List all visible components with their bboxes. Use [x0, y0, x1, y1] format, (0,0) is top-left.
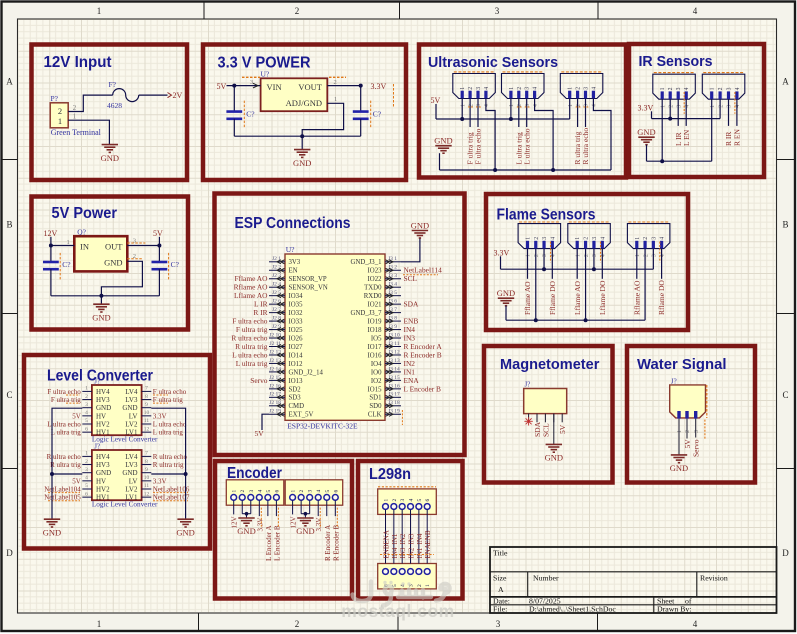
svg-text:4: 4 [693, 619, 698, 629]
svg-text:J2 12: J2 12 [269, 349, 281, 355]
svg-text:3: 3 [476, 87, 482, 90]
svg-text:1: 1 [334, 96, 337, 103]
svg-text:A: A [498, 585, 504, 594]
svg-text:ESP Connections: ESP Connections [235, 215, 351, 232]
svg-text:1: 1 [635, 237, 641, 240]
svg-text:J2 19: J2 19 [269, 409, 281, 415]
svg-text:4: 4 [601, 254, 607, 257]
svg-text:J2 17: J2 17 [269, 392, 281, 398]
svg-text:5: 5 [417, 499, 423, 502]
svg-text:IN4: IN4 [416, 533, 424, 544]
svg-text:2: 2 [584, 254, 590, 257]
svg-text:IO15: IO15 [368, 386, 383, 393]
svg-text:4: 4 [257, 490, 263, 493]
svg-text:4: 4 [85, 475, 88, 481]
svg-text:D:\ahmed\..\Sheet1.SchDoc: D:\ahmed\..\Sheet1.SchDoc [529, 605, 616, 614]
svg-text:10: 10 [144, 410, 150, 416]
svg-text:4: 4 [600, 237, 606, 240]
svg-text:F ultra echo: F ultra echo [474, 128, 483, 164]
svg-text:IN3: IN3 [408, 533, 416, 544]
svg-text:5V: 5V [217, 82, 227, 91]
svg-text:GND: GND [96, 469, 111, 477]
svg-text:2: 2 [534, 254, 540, 257]
svg-text:SD1: SD1 [369, 395, 381, 402]
svg-text:2: 2 [240, 490, 246, 493]
svg-text:Fflame AO: Fflame AO [523, 281, 532, 315]
svg-text:VOUT: VOUT [298, 82, 322, 92]
svg-text:1: 1 [85, 386, 88, 392]
svg-text:11: 11 [144, 483, 150, 489]
svg-text:IO0: IO0 [371, 369, 382, 376]
svg-text:ENA: ENA [383, 530, 391, 544]
svg-text:5: 5 [325, 490, 331, 493]
svg-text:12V: 12V [44, 229, 58, 238]
svg-text:6: 6 [274, 490, 280, 493]
svg-text:HV3: HV3 [96, 461, 110, 469]
svg-text:3.3V: 3.3V [153, 477, 167, 485]
svg-text:LV2: LV2 [125, 485, 138, 493]
svg-text:1: 1 [97, 619, 102, 629]
svg-text:GND: GND [293, 158, 311, 168]
svg-text:Size: Size [493, 574, 507, 583]
svg-text:4: 4 [592, 104, 598, 107]
svg-text:J3 12: J3 12 [388, 349, 400, 355]
svg-text:6: 6 [85, 426, 88, 432]
svg-text:VIN: VIN [267, 82, 282, 92]
svg-text:GND: GND [122, 404, 137, 412]
svg-text:LV: LV [129, 477, 138, 485]
svg-text:L ultra echo: L ultra echo [153, 420, 187, 428]
svg-text:5V: 5V [558, 424, 567, 434]
svg-text:SCL: SCL [404, 274, 418, 283]
svg-text:CLK: CLK [368, 412, 382, 419]
svg-text:GND: GND [237, 526, 255, 536]
svg-text:R ultra trig: R ultra trig [153, 461, 184, 469]
svg-text:IN2: IN2 [408, 547, 416, 558]
svg-text:LV2: LV2 [125, 420, 138, 428]
svg-text:Magnetometer: Magnetometer [500, 356, 600, 373]
svg-text:IN1: IN1 [391, 533, 399, 544]
svg-text:SD3: SD3 [289, 395, 302, 402]
svg-text:5V: 5V [255, 429, 265, 438]
svg-text:Ultrasonic Sensors: Ultrasonic Sensors [428, 54, 558, 71]
svg-text:L EN: L EN [682, 129, 691, 146]
svg-text:2: 2 [295, 6, 300, 16]
svg-text:8: 8 [145, 459, 148, 465]
svg-text:Rflame DO: Rflame DO [657, 280, 666, 315]
svg-text:GND: GND [545, 453, 563, 463]
svg-text:1: 1 [232, 490, 238, 493]
svg-text:Green Terminal: Green Terminal [51, 128, 102, 137]
svg-text:R Encoder B: R Encoder B [332, 525, 340, 561]
svg-text:IO4: IO4 [371, 361, 382, 368]
svg-text:IN1: IN1 [416, 547, 424, 558]
svg-text:P?: P? [51, 94, 59, 103]
svg-text:mostaql.com: mostaql.com [341, 601, 454, 621]
svg-text:L ultra trig: L ultra trig [236, 359, 268, 368]
svg-text:L ultra echo: L ultra echo [522, 128, 531, 164]
svg-text:L Encoder B: L Encoder B [404, 384, 442, 393]
svg-text:IO5: IO5 [371, 335, 382, 342]
svg-text:L Encoder B: L Encoder B [273, 525, 281, 561]
svg-text:3V3: 3V3 [289, 259, 301, 266]
svg-text:J2 11: J2 11 [269, 341, 281, 347]
svg-text:Title: Title [493, 549, 508, 558]
svg-text:File:: File: [493, 605, 507, 614]
svg-text:R Encoder A: R Encoder A [324, 525, 332, 561]
svg-text:Logic Level Converter: Logic Level Converter [92, 501, 158, 509]
svg-text:ENB: ENB [383, 544, 391, 558]
svg-text:J2 3: J2 3 [272, 273, 281, 279]
svg-text:Drawn By:: Drawn By: [657, 605, 691, 614]
svg-text:4: 4 [484, 104, 490, 107]
svg-text:HV2: HV2 [96, 420, 110, 428]
svg-text:F?: F? [109, 80, 117, 89]
svg-text:HV2: HV2 [96, 485, 110, 493]
svg-text:ESP32-DEVKITC-32E: ESP32-DEVKITC-32E [287, 422, 358, 431]
svg-text:3: 3 [496, 619, 501, 629]
svg-text:U?: U? [286, 245, 295, 254]
svg-text:J2 1: J2 1 [272, 256, 281, 262]
svg-text:1: 1 [710, 87, 716, 90]
svg-text:3: 3 [308, 490, 314, 493]
svg-text:5: 5 [85, 418, 88, 424]
svg-text:2: 2 [417, 584, 423, 587]
svg-text:2: 2 [668, 105, 674, 108]
svg-text:IO14: IO14 [289, 352, 304, 359]
svg-text:1: 1 [291, 490, 297, 493]
svg-text:IN3: IN3 [399, 547, 407, 558]
svg-text:9: 9 [145, 402, 148, 408]
svg-text:4: 4 [533, 104, 539, 107]
svg-text:GND: GND [92, 312, 110, 322]
svg-text:1: 1 [73, 114, 76, 121]
svg-text:OUT: OUT [105, 242, 123, 252]
svg-text:3.3V: 3.3V [256, 518, 264, 532]
svg-text:4: 4 [684, 105, 690, 108]
svg-text:10: 10 [144, 475, 150, 481]
svg-text:6: 6 [333, 490, 339, 493]
svg-text:1: 1 [568, 104, 574, 107]
svg-text:GND: GND [434, 136, 452, 146]
svg-text:IO34: IO34 [289, 293, 304, 300]
svg-text:J2 7: J2 7 [272, 307, 281, 313]
svg-text:11: 11 [144, 418, 150, 424]
svg-text:Number: Number [533, 574, 559, 583]
svg-text:12: 12 [144, 491, 150, 497]
svg-text:3: 3 [249, 490, 255, 493]
svg-text:J?: J? [525, 380, 531, 388]
svg-text:1: 1 [575, 237, 581, 240]
svg-text:GND_J3_1: GND_J3_1 [351, 259, 382, 266]
svg-text:3: 3 [727, 87, 733, 90]
svg-text:GND_J3_7: GND_J3_7 [351, 310, 383, 317]
svg-text:4: 4 [484, 87, 490, 90]
svg-text:1: 1 [635, 254, 641, 257]
svg-text:4: 4 [533, 87, 539, 90]
svg-text:2: 2 [685, 430, 691, 433]
svg-text:C?: C? [62, 260, 71, 269]
svg-text:12: 12 [144, 426, 150, 432]
svg-text:5V: 5V [431, 96, 441, 105]
svg-text:2V: 2V [173, 91, 183, 100]
svg-text:J3 16: J3 16 [388, 383, 400, 389]
svg-text:IO21: IO21 [368, 302, 382, 309]
svg-text:1: 1 [526, 254, 532, 257]
svg-text:8: 8 [145, 394, 148, 400]
svg-text:2: 2 [85, 459, 88, 465]
svg-text:5V: 5V [153, 229, 163, 238]
svg-text:3.3V: 3.3V [494, 248, 510, 257]
svg-text:R ultra trig: R ultra trig [50, 461, 81, 469]
svg-text:GND: GND [637, 127, 655, 137]
svg-text:Fflame DO: Fflame DO [548, 280, 557, 315]
svg-text:J2 6: J2 6 [272, 299, 281, 305]
svg-text:2: 2 [299, 490, 305, 493]
svg-text:1: 1 [660, 105, 666, 108]
svg-text:GND: GND [497, 288, 515, 298]
svg-text:1: 1 [677, 430, 683, 433]
svg-text:4: 4 [660, 254, 666, 257]
svg-text:IO13: IO13 [289, 378, 304, 385]
svg-text:GND: GND [96, 404, 111, 412]
svg-text:3: 3 [400, 499, 406, 502]
svg-text:C?: C? [373, 110, 382, 119]
svg-text:4: 4 [409, 499, 415, 502]
svg-text:1: 1 [384, 499, 390, 502]
svg-text:HV3: HV3 [96, 396, 110, 404]
svg-text:GND: GND [670, 463, 688, 473]
svg-text:2: 2 [718, 87, 724, 90]
svg-text:1: 1 [568, 87, 574, 90]
svg-text:GND: GND [104, 258, 122, 268]
svg-text:R EN: R EN [733, 129, 742, 146]
svg-text:2: 2 [668, 87, 674, 90]
svg-text:3: 3 [651, 237, 657, 240]
svg-text:J2 8: J2 8 [272, 315, 281, 321]
svg-text:2: 2 [85, 394, 88, 400]
svg-text:LV4: LV4 [125, 453, 138, 461]
svg-text:J3 18: J3 18 [388, 400, 400, 406]
svg-text:IO18: IO18 [368, 327, 383, 334]
svg-text:C?: C? [246, 110, 255, 119]
svg-text:4: 4 [316, 490, 322, 493]
svg-text:IO16: IO16 [368, 352, 383, 359]
svg-text:J2 18: J2 18 [269, 400, 281, 406]
svg-text:ENB: ENB [424, 530, 432, 544]
svg-text:3: 3 [592, 254, 598, 257]
svg-text:L ultra trig: L ultra trig [153, 429, 184, 437]
svg-text:D: D [6, 548, 13, 558]
svg-text:J3 15: J3 15 [388, 375, 400, 381]
svg-text:J2 5: J2 5 [272, 290, 281, 296]
svg-text:Lflame DO: Lflame DO [598, 280, 607, 315]
svg-text:R ultra echo: R ultra echo [153, 453, 188, 461]
svg-text:3: 3 [495, 6, 500, 16]
svg-text:3: 3 [676, 105, 682, 108]
svg-text:GND: GND [176, 527, 194, 537]
svg-text:3: 3 [694, 430, 700, 433]
svg-text:J3 13: J3 13 [388, 358, 400, 364]
svg-text:J2 10: J2 10 [269, 332, 281, 338]
svg-text:IO19: IO19 [368, 318, 383, 325]
svg-text:3: 3 [727, 105, 733, 108]
svg-text:1: 1 [97, 6, 102, 16]
svg-text:SD0: SD0 [369, 403, 382, 410]
svg-text:1: 1 [509, 104, 515, 107]
svg-text:Flame Sensors: Flame Sensors [497, 207, 596, 224]
svg-text:3: 3 [85, 402, 88, 408]
svg-text:B: B [782, 220, 788, 230]
svg-text:1: 1 [460, 87, 466, 90]
svg-text:SENSOR_VN: SENSOR_VN [289, 285, 328, 292]
svg-text:1: 1 [575, 254, 581, 257]
svg-text:3: 3 [85, 467, 88, 473]
svg-text:3: 3 [592, 237, 598, 240]
svg-text:4: 4 [550, 237, 556, 240]
svg-text:Lflame AO: Lflame AO [573, 280, 582, 315]
svg-text:5V: 5V [683, 439, 692, 449]
svg-text:6: 6 [85, 491, 88, 497]
svg-text:GND: GND [43, 527, 61, 537]
svg-text:5V: 5V [72, 477, 81, 485]
svg-text:3: 3 [652, 254, 658, 257]
svg-text:L ultra trig: L ultra trig [51, 429, 82, 437]
svg-text:2: 2 [643, 254, 649, 257]
svg-text:GND: GND [411, 220, 429, 230]
svg-text:2: 2 [58, 106, 62, 116]
svg-text:4: 4 [660, 237, 666, 240]
svg-text:3: 3 [133, 237, 136, 244]
svg-text:1: 1 [710, 105, 716, 108]
svg-text:IR Sensors: IR Sensors [639, 53, 713, 70]
svg-text:R ultra echo: R ultra echo [581, 128, 590, 165]
svg-text:TXD0: TXD0 [364, 285, 382, 292]
svg-text:2: 2 [133, 253, 136, 260]
svg-text:GND: GND [101, 153, 119, 163]
svg-text:4628: 4628 [107, 101, 122, 110]
svg-text:SCL: SCL [541, 423, 550, 437]
svg-text:IO23: IO23 [368, 268, 383, 275]
svg-text:LV3: LV3 [125, 396, 138, 404]
svg-text:4: 4 [591, 87, 597, 90]
svg-text:J3 19: J3 19 [388, 409, 400, 415]
svg-text:J2 9: J2 9 [272, 324, 281, 330]
svg-text:IO32: IO32 [289, 310, 304, 317]
svg-text:4: 4 [551, 254, 557, 257]
svg-text:C: C [6, 390, 12, 400]
svg-text:2: 2 [468, 87, 474, 90]
svg-text:J3 11: J3 11 [388, 341, 400, 347]
svg-text:1: 1 [85, 451, 88, 457]
svg-text:A: A [6, 77, 13, 87]
svg-text:J2 13: J2 13 [269, 358, 281, 364]
svg-text:GND: GND [296, 526, 314, 536]
svg-text:IN4: IN4 [391, 547, 399, 558]
svg-text:3.3V: 3.3V [153, 412, 167, 420]
svg-text:2: 2 [534, 237, 540, 240]
svg-text:LV: LV [129, 412, 138, 420]
svg-text:IN: IN [80, 242, 89, 252]
svg-text:IO33: IO33 [289, 318, 304, 325]
svg-text:2: 2 [584, 237, 590, 240]
svg-text:EN: EN [289, 268, 298, 275]
svg-text:1: 1 [460, 104, 466, 107]
svg-text:5: 5 [266, 490, 272, 493]
svg-text:ENA: ENA [424, 544, 432, 558]
svg-text:4: 4 [85, 410, 88, 416]
svg-text:3.3V: 3.3V [315, 518, 323, 532]
svg-text:HV4: HV4 [96, 388, 110, 396]
svg-text:2: 2 [517, 87, 523, 90]
svg-text:3: 3 [250, 79, 253, 86]
svg-text:4: 4 [735, 87, 741, 90]
svg-text:J2 2: J2 2 [272, 265, 281, 271]
svg-text:3.3V: 3.3V [371, 82, 387, 91]
svg-text:CMD: CMD [289, 403, 305, 410]
svg-text:J3 14: J3 14 [388, 366, 400, 372]
svg-text:SD2: SD2 [289, 386, 302, 393]
svg-text:1: 1 [67, 239, 70, 246]
svg-text:1: 1 [58, 116, 62, 126]
svg-text:U?: U? [261, 70, 270, 79]
svg-text:2: 2 [295, 619, 300, 629]
svg-text:IO17: IO17 [368, 344, 383, 351]
svg-text:J2 15: J2 15 [269, 375, 281, 381]
svg-text:7: 7 [145, 451, 148, 457]
svg-text:Revision: Revision [700, 574, 728, 583]
svg-text:HV: HV [96, 412, 106, 420]
svg-text:C?: C? [171, 260, 180, 269]
svg-text:Servo: Servo [692, 439, 701, 457]
svg-text:3: 3 [584, 87, 590, 90]
svg-text:B: B [6, 220, 12, 230]
svg-text:IO22: IO22 [368, 276, 383, 283]
svg-text:9: 9 [145, 467, 148, 473]
svg-text:1: 1 [526, 237, 532, 240]
svg-text:IO26: IO26 [289, 335, 304, 342]
svg-text:J2 4: J2 4 [272, 282, 281, 288]
svg-text:Logic Level Converter: Logic Level Converter [92, 436, 158, 444]
svg-text:5V Power: 5V Power [52, 205, 118, 222]
svg-text:J2 14: J2 14 [269, 366, 281, 372]
svg-text:IO25: IO25 [289, 327, 304, 334]
svg-text:LV3: LV3 [125, 461, 138, 469]
svg-text:1: 1 [425, 584, 431, 587]
svg-text:3: 3 [676, 87, 682, 90]
svg-text:Rflame AO: Rflame AO [632, 280, 641, 315]
svg-text:GND_J2_14: GND_J2_14 [289, 369, 324, 376]
svg-text:J2 16: J2 16 [269, 383, 281, 389]
svg-text:6: 6 [425, 499, 431, 502]
svg-text:IN2: IN2 [399, 533, 407, 544]
svg-text:LV4: LV4 [125, 388, 138, 396]
svg-text:7: 7 [145, 386, 148, 392]
svg-text:GND: GND [122, 469, 137, 477]
svg-text:EXT_5V: EXT_5V [289, 412, 314, 419]
svg-text:ADJ/GND: ADJ/GND [286, 98, 322, 108]
svg-text:A: A [782, 77, 789, 87]
svg-text:J3 17: J3 17 [388, 392, 400, 398]
svg-text:IO27: IO27 [289, 344, 304, 351]
svg-text:SDA: SDA [404, 300, 419, 309]
svg-text:1: 1 [660, 87, 666, 90]
svg-text:3: 3 [542, 254, 548, 257]
svg-text:2: 2 [718, 105, 724, 108]
svg-text:3.3V: 3.3V [638, 103, 654, 112]
svg-text:SENSOR_VP: SENSOR_VP [289, 276, 327, 283]
svg-text:C: C [782, 390, 788, 400]
